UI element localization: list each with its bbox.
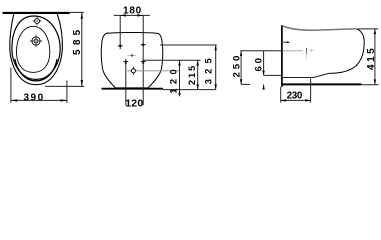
svg-text:60: 60 [253,55,264,71]
supply tick lower faint [305,54,307,59]
extension line from wall edge to 585 dim [70,11,84,13]
drain lens symbol circle [131,69,135,73]
basin opening (plan) [16,26,49,72]
svg-text:215: 215 [187,64,197,85]
230 dim line [281,99,311,101]
415 top arrow [374,29,376,34]
120 dim top arrow (up) [178,60,180,65]
faucet hole symbol [33,17,42,26]
60 leader line from supply level [263,51,265,76]
svg-text:120: 120 [125,98,143,110]
right bolt hole cross tick [141,44,146,46]
415 bottom arrow [374,80,376,85]
wall small arrow head [287,41,290,43]
390 dimension line [11,99,67,101]
390 right arrow [61,99,67,101]
svg-text:230: 230 [287,90,303,101]
180 right extension/bolt line down to 120 ext [142,15,144,105]
svg-text:390: 390 [24,93,45,104]
180 dimension line [114,14,150,16]
215 bottom arrow [197,84,199,89]
180 right arrow [137,14,143,16]
left bolt hole cross tick [118,45,123,47]
120 bottom left extension line [125,59,127,105]
supply faint cross mark [309,49,313,53]
supply ext line y50.8 [240,50,283,52]
supply ext line continuation (faint) [283,50,303,52]
drain symbol [30,35,42,47]
thick base line (front) [102,88,164,90]
svg-text:585: 585 [72,26,83,55]
svg-text:120: 120 [169,65,179,94]
floor thick line [282,83,361,85]
390 left arrow [11,99,17,101]
body outline (front) [101,33,162,88]
585 dimension line [81,12,83,86]
svg-text:415: 415 [366,46,377,70]
585 bottom extension line [45,85,84,87]
325 top arrow [215,45,217,50]
60 up arrow below floor [262,84,264,89]
250 dim line [240,51,242,85]
120 bottom right up arrow [142,59,144,63]
415 top ext line [358,28,379,30]
585 top arrow [81,12,83,18]
120 dim bottom arrow (up, below line) [178,90,180,95]
390 left extension line [10,68,12,103]
small inlet mark cross [130,54,133,57]
230 right arrow [305,99,310,101]
svg-text:325: 325 [204,53,214,84]
bidet rim line (plan) [12,16,60,79]
wall edge thick line [3,12,70,14]
ext line y45 to 325 [160,44,217,46]
230 left ext line [280,87,282,103]
230 left arrow [281,99,286,101]
left bolt hole diamond [119,44,122,47]
120 bottom right arrow tick [141,60,146,62]
rim inner edge (lower half) [15,59,57,81]
120 bottom left up arrow [125,59,127,63]
front face profile [329,29,364,74]
small inlet mark faint side ticks [128,54,137,56]
drain lens vertical ticks [132,67,134,75]
250 bottom leader to wall [241,83,250,85]
underside line [283,73,329,77]
60 down arrow [262,71,264,76]
svg-text:250: 250 [232,53,243,78]
right bolt hole diamond [142,43,145,46]
60 up arrow shaft [263,84,265,90]
floor thin extension [362,84,379,86]
top edge profile [283,26,356,30]
svg-text:180: 180 [123,5,142,16]
60 top ext line [264,74,282,76]
120 dim vertical line [179,60,181,96]
180 left arrow [120,14,126,16]
325 dim vertical line [215,45,217,90]
415 dim line [374,29,376,85]
supply tick [305,48,307,54]
bottom ext line y89.6 [163,89,216,91]
ext line y70.9 to 120 dim [127,70,179,72]
215 dim vertical line [197,60,199,89]
wall line [281,25,283,87]
325 bottom arrow [215,84,217,89]
585 bottom arrow [81,80,83,86]
230 right ext line [310,79,312,103]
250 bottom arrow [240,79,242,84]
drain lens side pointers [129,70,137,71]
wall small arrow shaft [283,41,288,43]
390 right extension line [66,81,68,103]
120 bottom left arrow tick [123,60,128,62]
180 left extension/bolt line [119,15,121,49]
215 top arrow [197,60,199,65]
ext line y60.3 to 215 [143,59,200,61]
250 top arrow [240,51,242,56]
bidet outer outline (plan) [10,14,63,85]
